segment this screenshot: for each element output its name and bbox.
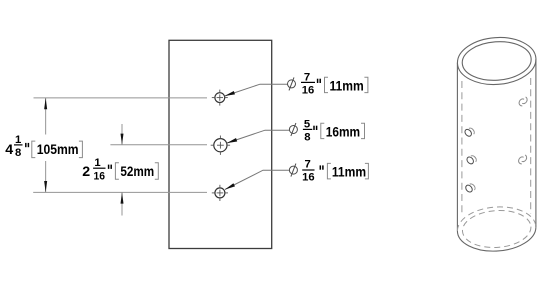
extension line hole 3 [33,191,207,193]
cylinder inner bore right hidden line [530,78,532,214]
dimension line 4 1/8 (vertical) [44,98,47,192]
leader to H1 [224,84,287,96]
center mark H2 [211,136,230,155]
dimension text 4 1/8" [105mm] [5,134,82,159]
svg-text:11mm: 11mm [330,78,364,94]
hole H3 (bottom, 7/16in) [215,188,225,198]
cylinder bottom outer ellipse back (hidden) [457,207,536,231]
svg-text:1: 1 [15,134,21,146]
svg-text:8: 8 [304,132,310,144]
svg-text:105mm: 105mm [37,142,79,158]
extension line hole 2 [110,144,207,146]
svg-text:52mm: 52mm [120,164,154,180]
svg-text:5: 5 [304,119,310,131]
tube hole left 1 [464,128,475,137]
extension line hole 1 [34,97,208,99]
label dia 7/16" [11mm] (bottom) [289,158,368,183]
cylinder top outer ellipse [456,35,538,87]
hole H2 (middle, 5/8in) [214,139,227,152]
svg-text:11mm: 11mm [332,164,366,180]
svg-text:7: 7 [304,158,310,170]
dimension line 2 1/16 (vertical, arrows outside) [121,124,124,216]
center mark H1 [212,90,228,106]
cylinder inner bore left hidden line [461,81,463,215]
cylinder left side line [456,63,458,231]
svg-text:16: 16 [302,172,315,184]
cylinder bottom outer ellipse front (solid) [457,227,536,251]
cylinder right side line [535,59,537,227]
tube hole left 3 [464,184,475,193]
tube hole right 1 (hidden side) [519,97,527,106]
svg-text:8: 8 [15,147,21,159]
svg-text:16: 16 [94,171,106,183]
cylinder bottom inner ellipse (hidden) [461,208,532,249]
cylinder top inner ellipse [461,39,533,82]
leader to H2 [227,130,289,143]
tube hole right 2 (hidden side) [519,155,527,164]
dimension text 2 1/16" [52mm] [82,157,158,182]
svg-text:7: 7 [304,72,310,84]
svg-text:2: 2 [82,164,90,180]
svg-text:16: 16 [302,84,315,96]
leader to H3 [225,170,289,189]
hole H1 (top, 7/16in) [215,93,225,103]
svg-text:4: 4 [5,142,13,158]
svg-text:16mm: 16mm [326,124,360,140]
center mark H3 [212,185,228,201]
plate outline [169,40,272,248]
tube hole left 2 [466,156,477,165]
label dia 7/16" [11mm] (top) [288,72,368,97]
label dia 5/8" [16mm] (middle) [289,119,364,144]
svg-text:1: 1 [94,157,100,169]
